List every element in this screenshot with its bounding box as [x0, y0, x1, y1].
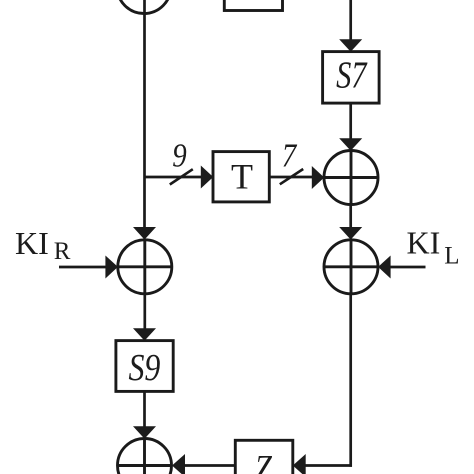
arrowhead into T [201, 166, 213, 189]
svg-text:7: 7 [282, 136, 298, 174]
svg-text:S7: S7 [336, 54, 368, 96]
arrowhead into Z right [293, 454, 306, 474]
xor circle right [324, 151, 378, 205]
wire bottom xor to Z [185, 464, 236, 467]
svg-text:Z: Z [255, 447, 273, 474]
wire left vertical [143, 0, 146, 229]
wire right vertical top [349, 0, 352, 41]
arrowhead into KIR xor [133, 227, 156, 240]
wire KIR stub [59, 266, 106, 269]
svg-text:T: T [231, 157, 253, 197]
wire T to xor [269, 176, 313, 179]
arrowhead into KIL xor [339, 227, 362, 240]
arrowhead into KIL circle [378, 256, 391, 279]
wire KIR xor to S9 [143, 294, 146, 330]
wire S9 to bottom xor [143, 391, 146, 428]
xor circle bottom (cut off) [118, 439, 172, 474]
arrowhead into bottom xor right [172, 454, 185, 474]
box top (cut off, unlabeled) [224, 0, 282, 11]
arrowhead into bottom xor [133, 426, 156, 439]
wire bottom horizontal from corner to Z [305, 464, 352, 467]
arrowhead into S7 [339, 39, 362, 52]
wire xor to KIL xor [349, 205, 352, 229]
wire right vertical to bottom corner [349, 294, 352, 467]
wire S7 to xor [349, 103, 352, 140]
arrowhead into xor left [312, 166, 324, 189]
S-box S9 [116, 341, 173, 392]
wire branch to T [145, 176, 203, 179]
arrowhead into xor [339, 138, 362, 151]
box Z (cut off at bottom) [235, 440, 292, 474]
S-box S7 [323, 52, 380, 104]
wire KIL stub [390, 266, 426, 269]
xor circle top-left (cut off at top) [117, 0, 171, 14]
xor circle KIR [118, 240, 172, 294]
bus tick 9 [170, 169, 193, 184]
xor circle KIL [324, 240, 378, 294]
arrowhead into S9 [133, 328, 156, 341]
bus tick 7 [280, 169, 303, 184]
box T [213, 152, 269, 202]
arrowhead into KIR circle [105, 256, 118, 279]
svg-text:S9: S9 [128, 346, 160, 388]
svg-text:9: 9 [172, 136, 187, 174]
